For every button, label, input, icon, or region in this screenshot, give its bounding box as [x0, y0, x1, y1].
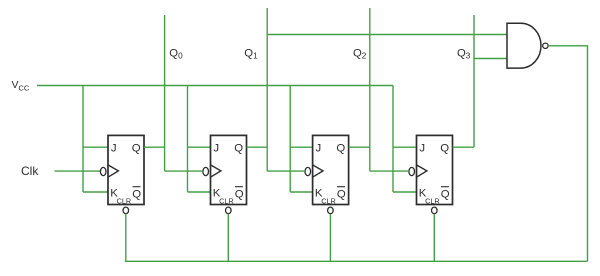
- wire CLR stub FF4: [433, 214, 435, 261]
- wire net Q0: FF1 Q to top stub and FF2 clock: [144, 15, 203, 171]
- flip-flop FF3: [305, 135, 349, 213]
- NAND gate U1: [507, 23, 548, 68]
- svg-text:Q: Q: [441, 188, 450, 200]
- svg-text:Q: Q: [132, 143, 141, 155]
- wire Vcc drop to FF1 J/K: [83, 86, 108, 193]
- wire NAND output to CLR rail: [548, 46, 587, 261]
- wire Vcc drop to FF2 J/K: [188, 86, 211, 193]
- svg-text:J: J: [111, 142, 117, 154]
- clock bubble FF3: [305, 167, 311, 175]
- clock edge triangle FF4: [417, 165, 427, 177]
- wire Vcc rail: [37, 85, 393, 87]
- wire CLR stub FF3: [329, 214, 331, 261]
- svg-text:Q: Q: [235, 188, 244, 200]
- svg-text:Q: Q: [336, 143, 345, 155]
- label Clk: [21, 164, 39, 178]
- clock edge triangle FF2: [211, 165, 221, 177]
- svg-text:Q: Q: [234, 143, 243, 155]
- svg-text:Q: Q: [132, 188, 141, 200]
- svg-text:Q: Q: [337, 188, 346, 200]
- clock edge triangle FF3: [313, 165, 323, 177]
- wire net Q2: FF3 Q to top stub and FF4 clock: [349, 8, 409, 171]
- clock bubble FF1: [100, 167, 106, 175]
- flip-flop FF2: [203, 135, 247, 213]
- svg-text:CLR: CLR: [425, 197, 440, 206]
- label Q2: [353, 47, 367, 60]
- wire CLR stub FF1: [125, 214, 127, 261]
- svg-text:J: J: [419, 142, 425, 154]
- NAND output bubble: [543, 43, 548, 48]
- svg-text:J: J: [213, 142, 219, 154]
- wire CLR bottom rail: [125, 260, 588, 262]
- wire Vcc drop to FF3 J/K: [290, 86, 312, 193]
- wire Clk input: [55, 170, 101, 172]
- CLR bubble FF4: [432, 207, 438, 214]
- CLR bubble FF2: [226, 207, 232, 214]
- svg-text:CLR: CLR: [117, 197, 132, 206]
- label Q0: [169, 47, 183, 60]
- svg-text:CLR: CLR: [219, 197, 234, 206]
- svg-text:CLR: CLR: [321, 197, 336, 206]
- wire CLR stub FF2: [227, 214, 229, 261]
- svg-text:Q: Q: [440, 143, 449, 155]
- label Q1: [244, 47, 258, 60]
- svg-text:Clk: Clk: [21, 164, 39, 178]
- wire Vcc drop to FF4 J/K: [393, 86, 417, 193]
- flip-flop FF1: [100, 135, 144, 213]
- clock edge triangle FF1: [108, 165, 118, 177]
- wire net Q1: FF2 Q to top stub, FF3 clock and NAND input A: [247, 8, 508, 171]
- clock bubble FF2: [203, 167, 209, 175]
- CLR bubble FF3: [328, 207, 334, 214]
- wire net Q3: FF4 Q to top stub and NAND input B: [453, 15, 508, 147]
- svg-text:J: J: [316, 142, 322, 154]
- CLR bubble FF1: [123, 207, 129, 214]
- label Vcc: [12, 79, 30, 93]
- clock bubble FF4: [409, 167, 415, 175]
- flip-flop FF4: [409, 135, 453, 213]
- label Q3: [457, 47, 471, 60]
